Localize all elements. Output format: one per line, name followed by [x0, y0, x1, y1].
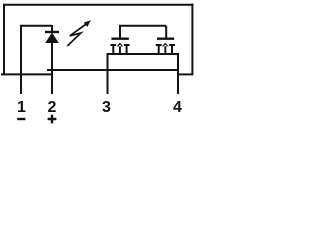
- MOSFET Q1 body arrow: [117, 43, 124, 53]
- light emission arrow: [67, 20, 91, 46]
- gate coupling wire with end stubs: [119, 26, 166, 39]
- MOSFET Q1 channel left segment: [110, 45, 116, 54]
- LED D1 cathode bar: [45, 31, 59, 33]
- MOSFET Q2 gate bar: [157, 38, 174, 40]
- package outline left edge: [3, 4, 5, 76]
- MOSFET Q2 channel right segment: [169, 45, 175, 54]
- wire pin1 riser and top cathode wire: [20, 26, 52, 94]
- MOSFET Q1 gate bar: [111, 38, 128, 40]
- MOSFET Q1 channel right segment: [124, 45, 130, 54]
- polarity plus sign (pin 2): [48, 115, 57, 124]
- polarity minus sign (pin 1): [17, 118, 25, 120]
- package outline bottom edge left segment: [1, 73, 53, 75]
- svg-text:2: 2: [48, 99, 57, 116]
- svg-text:3: 3: [102, 99, 111, 116]
- package outline bottom edge middle segment: [47, 69, 178, 71]
- MOSFET Q2 channel left segment: [156, 45, 162, 54]
- svg-text:1: 1: [17, 99, 26, 116]
- LED D1 triangle: [45, 33, 59, 44]
- MOSFET Q2 body arrow: [162, 43, 169, 53]
- wire pin2 riser (LED anode): [51, 43, 53, 95]
- package outline right edge: [191, 4, 193, 76]
- package outline bottom edge right segment: [177, 73, 193, 75]
- source common wire: [108, 53, 179, 55]
- wire pin3 riser: [107, 53, 109, 94]
- package outline top edge: [3, 4, 193, 6]
- wire LED cathode stub: [51, 25, 53, 32]
- svg-text:4: 4: [173, 99, 182, 116]
- wire pin4 riser: [177, 53, 179, 94]
